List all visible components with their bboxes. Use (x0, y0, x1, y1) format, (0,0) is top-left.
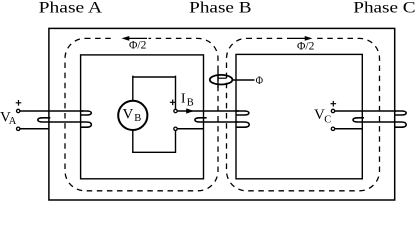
core right window (236, 54, 362, 178)
svg-text:I: I (181, 91, 186, 106)
winding B top wire (177, 110, 239, 112)
plus mark A (16, 100, 22, 106)
flux arrow right (points right) (287, 37, 306, 39)
flux arrow left (points left) (128, 37, 147, 39)
winding C right loop 2 (395, 122, 407, 127)
svg-text:Phase C: Phase C (353, 0, 415, 16)
terminal A top (17, 109, 20, 112)
mask under left arrow (114, 37, 149, 40)
svg-text:B: B (134, 113, 141, 124)
flux surface ellipse on center leg (210, 75, 233, 85)
core outer boundary (49, 28, 395, 200)
svg-text:C: C (324, 114, 331, 125)
plus mark B (170, 100, 176, 106)
svg-text:Φ: Φ (256, 73, 264, 87)
terminal B top (174, 109, 177, 112)
winding C right loop 1 (395, 111, 407, 115)
winding C left loop + front wire (353, 118, 396, 122)
terminal C bottom (331, 127, 334, 130)
winding C bottom wire (335, 128, 362, 130)
terminal C top (331, 109, 334, 112)
flux path left loop (dashed) (65, 38, 218, 190)
svg-text:V: V (123, 107, 134, 123)
winding B bottom wire (177, 128, 203, 130)
svg-text:Φ/2: Φ/2 (297, 40, 315, 52)
winding B left loop + front wire (195, 118, 238, 122)
svg-text:Phase B: Phase B (189, 0, 251, 16)
winding A right loop 2 (80, 122, 91, 127)
connector inside ellipse (218, 77, 227, 79)
winding A top wire (20, 110, 83, 112)
current arrow IB (186, 108, 194, 113)
winding A right loop 1 (80, 111, 91, 115)
plus mark C (331, 101, 337, 107)
source VB circle (118, 101, 147, 130)
flux path right loop (dashed) (227, 38, 380, 190)
terminal B bottom (174, 127, 177, 130)
winding B right loop 2 (237, 122, 250, 127)
leader line to Phi label (232, 79, 254, 81)
mask under right arrow (286, 37, 314, 40)
winding B right loop 1 (237, 111, 249, 115)
winding C top wire (335, 110, 396, 112)
svg-text:Φ/2: Φ/2 (129, 40, 147, 52)
winding A left loop + front wire (38, 118, 82, 122)
svg-text:Phase A: Phase A (39, 0, 103, 16)
svg-text:A: A (9, 116, 17, 127)
wire VB bottom connection (133, 130, 176, 152)
terminal A bottom (17, 127, 20, 130)
core left window (81, 55, 204, 179)
svg-text:B: B (187, 97, 194, 108)
flux line dash through ellipse (217, 71, 219, 89)
winding A bottom wire (20, 128, 49, 130)
wire VB top connection (132, 76, 176, 110)
